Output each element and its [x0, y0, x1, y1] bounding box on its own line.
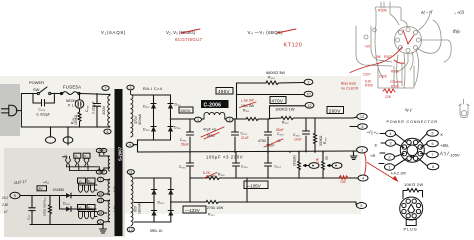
svg-text:10K: 10K	[340, 180, 347, 184]
svg-text:2: 2	[308, 81, 310, 85]
svg-text:15: 15	[99, 211, 103, 215]
svg-text:V₆: V₆	[79, 206, 83, 210]
svg-text:1: 1	[197, 118, 199, 122]
svg-text:λ7: λ7	[3, 210, 8, 214]
svg-text:FUSE5A: FUSE5A	[63, 85, 81, 90]
svg-text:P. L: P. L	[68, 104, 74, 108]
svg-text:15K: 15K	[375, 55, 382, 59]
svg-text:R305: R305	[365, 84, 373, 88]
svg-text:D₃₀₇: D₃₀₇	[143, 105, 150, 109]
svg-text:×: ×	[440, 133, 443, 139]
svg-text:D₃₀₆: D₃₀₆	[174, 126, 181, 130]
svg-text:PLUG: PLUG	[404, 227, 418, 232]
svg-text:2: 2	[389, 156, 391, 160]
svg-text:6800Ω 3W: 6800Ω 3W	[266, 70, 285, 75]
svg-text:V₃: V₃	[84, 155, 88, 159]
svg-text:2.50: 2.50	[1, 203, 8, 207]
svg-text:6CG7/6GU7: 6CG7/6GU7	[175, 37, 203, 42]
svg-text:500V: 500V	[181, 108, 191, 113]
svg-text:C305: C305	[379, 75, 387, 79]
svg-text:7: 7	[105, 86, 107, 90]
svg-text:1S1850: 1S1850	[53, 188, 65, 192]
svg-text:3: 3	[130, 86, 132, 90]
svg-text:C-2006: C-2006	[204, 102, 222, 108]
svg-text:R₃₀₃: R₃₀₃	[323, 137, 327, 144]
svg-text:Bias lead: Bias lead	[341, 82, 356, 86]
svg-text:—123V: —123V	[185, 208, 200, 213]
svg-text:6: 6	[107, 130, 109, 134]
svg-text:20K: 20K	[316, 157, 320, 164]
svg-text:5RB- 40: 5RB- 40	[150, 229, 163, 233]
svg-text:C₃₀₅: C₃₀₅	[179, 165, 186, 169]
svg-text:3: 3	[390, 142, 392, 146]
svg-text:470V: 470V	[272, 99, 284, 104]
svg-text:100V: 100V	[101, 105, 106, 115]
svg-text:3: 3	[229, 118, 231, 122]
svg-text:12: 12	[308, 104, 312, 108]
svg-text:8: 8	[432, 165, 434, 169]
svg-text:↳: ↳	[390, 172, 393, 176]
svg-text:D₃₁₀: D₃₁₀	[175, 103, 182, 107]
svg-text:6.3V: 6.3V	[113, 186, 117, 192]
svg-text:100Ω 2W R₃₁₃: 100Ω 2W R₃₁₃	[43, 196, 47, 216]
svg-text:RA-I C×4: RA-I C×4	[143, 86, 163, 91]
svg-text:C₃₀₆: C₃₀₆	[241, 165, 248, 169]
svg-text:C₃₀₂: C₃₀₂	[241, 132, 248, 136]
svg-text:21uF: 21uF	[241, 136, 249, 140]
svg-text:—105V: —105V	[246, 184, 261, 189]
svg-text:C307: C307	[363, 73, 371, 77]
svg-text:V₁(6AQ8): V₁(6AQ8)	[101, 30, 126, 35]
svg-text:4: 4	[129, 143, 131, 147]
svg-text:C₃₀₃: C₃₀₃	[277, 132, 284, 136]
svg-text:0, 022µF: 0, 022µF	[37, 112, 50, 116]
svg-text:13: 13	[360, 115, 364, 119]
svg-text:+20: +20	[365, 45, 371, 49]
svg-text:4: 4	[362, 177, 364, 181]
svg-text:NEON: NEON	[66, 99, 76, 103]
svg-text:13: 13	[99, 199, 103, 203]
svg-text:(B): (B)	[325, 156, 329, 160]
svg-text:-105V: -105V	[449, 153, 460, 158]
svg-text:E: E	[375, 143, 378, 148]
svg-text:KT120: KT120	[284, 43, 303, 49]
svg-text:56uF: 56uF	[181, 143, 189, 147]
svg-text:D₃₀₅: D₃₀₅	[158, 201, 165, 205]
svg-text:5: 5	[432, 132, 434, 136]
svg-text:R308: R308	[391, 85, 399, 89]
svg-text:270ohm: 270ohm	[390, 80, 402, 84]
svg-text:C₃₁₅: C₃₁₅	[27, 214, 31, 220]
svg-text:+B: +B	[370, 153, 375, 158]
svg-text:D₃₀₆: D₃₀₆	[63, 202, 70, 206]
svg-text:D₃₀₅: D₃₀₅	[143, 128, 150, 132]
svg-text:+6N,: +6N,	[440, 143, 449, 148]
svg-text:100KΩ 1W: 100KΩ 1W	[275, 107, 295, 112]
svg-text:R₃₀₆: R₃₀₆	[218, 173, 225, 177]
svg-text:SW: SW	[33, 87, 40, 92]
svg-text:POWER: POWER	[29, 80, 44, 85]
svg-text:10.2: 10.2	[2, 196, 8, 200]
svg-text:R₃₀₁: R₃₀₁	[243, 109, 250, 113]
svg-text:C₃₀₁: C₃₀₁	[180, 138, 187, 142]
svg-text:400mA: 400mA	[138, 114, 142, 125]
svg-text:150KΩ: 150KΩ	[74, 114, 78, 125]
svg-text:6.3V: 6.3V	[113, 206, 117, 212]
svg-text:POWER CONNECTOR: POWER CONNECTOR	[387, 120, 438, 124]
svg-text:11: 11	[129, 170, 133, 174]
svg-text:A.C.100: A.C.100	[393, 172, 406, 176]
svg-text:no CL&CR: no CL&CR	[341, 87, 359, 91]
svg-text:270Ω 10W: 270Ω 10W	[207, 206, 224, 210]
svg-text:495V: 495V	[218, 89, 230, 94]
svg-text:470Ω: 470Ω	[258, 139, 267, 143]
svg-text:7: 7	[432, 153, 434, 157]
svg-text:R₃₀₂: R₃₀₂	[282, 121, 289, 125]
svg-text:8: 8	[362, 125, 364, 129]
svg-text:8V: 8V	[39, 187, 44, 191]
svg-text:6: 6	[432, 142, 434, 146]
svg-text:C₃₀₉: C₃₀₉	[85, 105, 89, 112]
svg-text:180mA: 180mA	[138, 203, 142, 214]
svg-text:S-2007: S-2007	[118, 146, 123, 161]
svg-text:10: 10	[99, 192, 103, 196]
svg-text:22K: 22K	[385, 95, 392, 99]
svg-text:R306: R306	[391, 70, 399, 74]
svg-text:0.022µF: 0.022µF	[92, 101, 96, 114]
svg-text:C₃₀₆: C₃₀₆	[39, 107, 46, 111]
svg-text:10uF: 10uF	[294, 138, 302, 142]
svg-text:C₃₀₄: C₃₀₄	[293, 133, 300, 137]
svg-text:100µF ×3 200V: 100µF ×3 200V	[206, 155, 243, 160]
svg-text:2KΩ(B): 2KΩ(B)	[293, 155, 297, 166]
svg-text:47µF ×3: 47µF ×3	[203, 128, 216, 132]
svg-text:fh(ν: fh(ν	[453, 29, 461, 34]
svg-text:3: 3	[361, 148, 363, 152]
svg-text:12: 12	[129, 228, 133, 232]
svg-text:10KΩ 2W: 10KΩ 2W	[404, 182, 423, 187]
svg-text:R306: R306	[378, 9, 387, 13]
svg-text:R₃₀₄: R₃₀₄	[268, 76, 275, 80]
svg-text:4: 4	[390, 132, 392, 136]
svg-text:R₃₀₅: R₃₀₅	[208, 213, 215, 217]
svg-text:10: 10	[307, 93, 311, 97]
svg-text:V₄: V₄	[79, 180, 83, 184]
svg-text:1: 1	[389, 166, 391, 170]
svg-text:V₅: V₅	[88, 180, 92, 184]
svg-text:260V: 260V	[329, 109, 341, 114]
svg-text:→+(2): →+(2)	[453, 9, 465, 15]
svg-text:C₃₀₇: C₃₀₇	[275, 165, 282, 169]
svg-text:5: 5	[361, 204, 363, 208]
svg-text:5y γʻ: 5y γʻ	[405, 107, 413, 112]
